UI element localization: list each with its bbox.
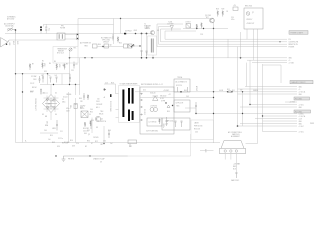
- resistor R41: [159, 119, 161, 125]
- text fan wire labels: [233, 163, 240, 171]
- wire Q1 emitter drop: [103, 126, 105, 144]
- capacitor C37 left cluster: [73, 62, 75, 69]
- capacitor C10 snubber dark: [110, 94, 112, 97]
- wire vertical bus x=257.5 lower: [257, 63, 259, 144]
- svg-text:250V: 250V: [33, 79, 37, 81]
- transformer T1 core bar upper: [128, 88, 130, 104]
- svg-text:C20: C20: [231, 17, 234, 19]
- node select junction: [22, 91, 23, 92]
- text X-cap notes column: [30, 75, 37, 93]
- wire x=68.5 vertical: [68, 92, 70, 143]
- resistor R28: [217, 11, 219, 17]
- svg-text:R29: R29: [222, 9, 225, 11]
- node junction on top rail: [120, 18, 121, 19]
- resistor R53 driver: [90, 121, 92, 127]
- node x242 junctions: [242, 91, 243, 92]
- svg-text:SWITCH: SWITCH: [100, 121, 106, 123]
- svg-text:LTV817: LTV817: [186, 22, 191, 24]
- text secondary specks: [143, 90, 189, 114]
- wire row y=121: [263, 120, 298, 122]
- capacitor C27: [181, 121, 183, 127]
- capacitor C25: [195, 102, 197, 114]
- box PS-ON module B: [104, 44, 109, 48]
- wire standby drops: [142, 34, 147, 58]
- capacitor C41: [108, 131, 110, 139]
- node standby junctions on AC rail: [135, 33, 137, 35]
- capacitor C2: [45, 24, 47, 33]
- node aux junction: [139, 45, 140, 46]
- svg-text:R54 2R2: R54 2R2: [83, 128, 89, 130]
- node -5V junction: [172, 105, 173, 106]
- diode D6 standby rail: [124, 33, 126, 35]
- svg-text:Q7: Q7: [252, 12, 254, 14]
- box aux module: [124, 44, 128, 48]
- node gnd rail dots: [84, 57, 85, 58]
- text R28 R29 labels: [216, 9, 228, 14]
- wire row y=131.5: [263, 131, 298, 133]
- svg-text:R28: R28: [216, 9, 219, 11]
- wire row y=118.5: [255, 118, 297, 120]
- text snubber labels: [50, 135, 70, 144]
- text U3 labels: [245, 6, 254, 26]
- svg-text:R22: R22: [119, 43, 122, 45]
- text -5V module labels: [176, 103, 185, 108]
- regulator U5 TL431 triangle: [170, 26, 174, 31]
- box connector header 3: [294, 97, 310, 100]
- svg-text:R40: R40: [184, 90, 187, 92]
- svg-text:R56 10K: R56 10K: [194, 129, 200, 131]
- box thermistor group: [53, 47, 78, 64]
- ground symbol primary: [62, 156, 66, 161]
- svg-text:R36: R36: [87, 141, 90, 143]
- svg-text:D10: D10: [143, 90, 146, 92]
- text Q5 cluster: [205, 15, 211, 19]
- svg-text:P3 CONN: P3 CONN: [295, 98, 302, 100]
- svg-text:R44: R44: [98, 44, 101, 46]
- svg-text:2SC4242: 2SC4242: [96, 104, 102, 106]
- text T1 top pin labels: [105, 83, 114, 85]
- svg-text:+5 VDC: +5 VDC: [299, 131, 305, 133]
- svg-text:470u: 470u: [66, 108, 70, 110]
- text low voltage labels: [165, 120, 174, 126]
- wire vertical x=113.5: [113, 19, 115, 45]
- wire -12V module internals: [178, 87, 188, 92]
- resistor R35: [84, 122, 86, 127]
- text PS-ON part refs: [98, 44, 112, 47]
- svg-text:C44: C44: [90, 109, 93, 111]
- wire vertical left x=22.5: [22, 74, 24, 143]
- wire y=97.5 rail: [140, 97, 214, 99]
- node module junction dark: [180, 91, 182, 93]
- svg-text:2.2K: 2.2K: [200, 34, 203, 36]
- svg-text:R52: R52: [90, 112, 93, 114]
- text PG box rows: [194, 123, 203, 134]
- svg-text:R7: R7: [32, 64, 34, 66]
- svg-text:R4: R4: [54, 61, 56, 63]
- wire vertical bus x=237.5: [237, 47, 239, 126]
- text bottom center cluster: [62, 143, 104, 161]
- capacitor C38: [83, 93, 85, 100]
- svg-text:REG 7805: REG 7805: [245, 6, 252, 8]
- capacitor C9: [56, 120, 58, 131]
- capacitor C31: [90, 121, 92, 130]
- svg-text:+12V: +12V: [299, 118, 303, 120]
- svg-text:C45 10n: C45 10n: [83, 131, 89, 133]
- svg-text:4148: 4148: [134, 30, 138, 32]
- svg-text:D8: D8: [96, 127, 98, 129]
- capacitor C39 select: [39, 76, 41, 83]
- wire y=133 stub: [40, 132, 58, 134]
- capacitor C30 fan: [235, 173, 237, 179]
- text thermistor label: [57, 49, 68, 55]
- wire long +5V rail y=91.8: [135, 91, 297, 93]
- wire bottom rail right segment: [246, 143, 258, 145]
- thermistor RT1: [69, 48, 72, 51]
- box PS-ON module A: [93, 44, 98, 48]
- wire x=75.5 vertical lower: [75, 98, 77, 143]
- svg-text:200V: 200V: [66, 111, 70, 113]
- node rail84 junctions: [53, 84, 54, 85]
- svg-text:C40: C40: [44, 130, 47, 132]
- varistor VR1: [40, 89, 42, 95]
- svg-text:TL431: TL431: [168, 22, 172, 24]
- text bridge values: [42, 93, 57, 117]
- wire vertical bus x=262.5: [262, 64, 264, 132]
- node doubler junctions: [22, 73, 23, 74]
- svg-text:1R2: 1R2: [100, 144, 103, 146]
- wire row y=116: [263, 115, 298, 117]
- wire J2 pin leads: [225, 154, 236, 170]
- wire U3 drops: [247, 29, 258, 63]
- optocoupler U4: [128, 44, 132, 48]
- wire vertical bus x=213.5 long: [213, 29, 215, 144]
- wire driver drop x=92: [91, 118, 93, 134]
- svg-text:22K: 22K: [80, 101, 83, 103]
- capacitor C16 secondary: [141, 51, 143, 57]
- text plug pin labels: [8, 41, 18, 45]
- transformer T1 primary winding bar: [122, 90, 124, 118]
- text TL431 label: [167, 22, 174, 26]
- text upper cluster micro labels: [42, 61, 74, 74]
- capacitor C17: [146, 51, 148, 56]
- text emitter labels: [95, 141, 103, 146]
- svg-text:R6: R6: [49, 63, 51, 65]
- svg-text:D11 D12: D11 D12: [143, 109, 145, 115]
- text Q1 label: [100, 119, 106, 124]
- box section outline faint: [63, 134, 191, 156]
- inductor L1 common mode choke: [57, 33, 78, 40]
- wire top loop y=24.3: [44, 24, 114, 26]
- wire feedback row3 with corner: [159, 27, 288, 45]
- svg-text:R46: R46: [79, 98, 82, 100]
- wire x=75.5 drop: [75, 85, 77, 96]
- text primary text row y150: [87, 141, 113, 146]
- resistor R2 bleeder: [42, 63, 44, 69]
- text D6 label: [125, 30, 137, 33]
- node rail73 junction left: [15, 73, 16, 74]
- svg-text:+5 VSB: +5 VSB: [289, 63, 294, 65]
- svg-text:C46: C46: [195, 132, 198, 134]
- wire select drop x=62: [61, 74, 63, 85]
- wire doubler rail y=73.8: [16, 73, 71, 75]
- capacitor C4: [42, 74, 44, 83]
- wire vertical x=228: [227, 39, 229, 58]
- svg-text:D35: D35: [44, 71, 47, 73]
- svg-text:2SC945: 2SC945: [93, 137, 99, 139]
- box connector header 2: [290, 80, 313, 84]
- svg-text:NEUT: NEUT: [12, 41, 14, 45]
- svg-text:OUT FILTER SEC: OUT FILTER SEC: [146, 131, 159, 133]
- svg-text:D9: D9: [157, 30, 159, 32]
- text bridge inner specks: [46, 100, 55, 110]
- svg-text:POWER: POWER: [289, 46, 296, 48]
- wire fan stub y=150.5: [200, 150, 214, 152]
- svg-text:L TOROID: L TOROID: [150, 106, 158, 108]
- text bridge bottom refs: [44, 130, 60, 148]
- text T2 label: [144, 24, 151, 30]
- box low voltage group: [162, 118, 190, 130]
- svg-text:510: 510: [97, 99, 100, 101]
- svg-text:L2 TOROID: L2 TOROID: [149, 122, 158, 124]
- resistor R29: [222, 11, 224, 17]
- svg-text:D6 FR107: D6 FR107: [125, 31, 132, 33]
- svg-text:+12 VDC: +12 VDC: [289, 102, 296, 104]
- svg-text:-12V: -12V: [165, 124, 168, 126]
- svg-text:R33: R33: [80, 107, 83, 109]
- node C3 top: [77, 34, 78, 35]
- wire top rail y=18.5: [78, 19, 214, 34]
- wire row y=104.5: [250, 104, 297, 106]
- resistor R3: [56, 64, 58, 71]
- svg-text:C2: C2: [76, 64, 78, 66]
- svg-text:+5: +5: [289, 60, 291, 62]
- svg-text:+B: +B: [103, 97, 105, 99]
- svg-text:D3: D3: [42, 114, 44, 116]
- node row ticks: [279, 41, 280, 42]
- node C3 bottom: [77, 38, 78, 39]
- svg-text:C19: C19: [76, 143, 79, 145]
- svg-text:2n2: 2n2: [110, 143, 113, 145]
- svg-text:OFF LOGIC: OFF LOGIC: [102, 40, 111, 42]
- svg-text:+5V SEC: +5V SEC: [163, 90, 170, 92]
- svg-text:+5: +5: [299, 89, 301, 91]
- box L3 sub: [147, 118, 162, 126]
- svg-text:S20C40: S20C40: [150, 93, 156, 95]
- svg-text:3300u: 3300u: [162, 124, 164, 128]
- wire feedback row2 with corner: [161, 29, 288, 42]
- wire ground rail y=57.8: [70, 57, 288, 59]
- node T1 pin circles: [141, 93, 142, 121]
- svg-text:LM339: LM339: [194, 123, 199, 125]
- svg-text:D38: D38: [72, 146, 75, 148]
- diode D14: [167, 105, 170, 108]
- svg-text:1K: 1K: [226, 11, 228, 13]
- node bottom rail junctions: [55, 155, 56, 156]
- text D10 labels: [160, 96, 166, 103]
- wire x=237.5 bottom vertical: [235, 170, 237, 173]
- svg-text:CIRCUIT: CIRCUIT: [103, 42, 109, 44]
- node AC junction: [15, 29, 17, 31]
- node bus junction dots: [237, 125, 239, 127]
- svg-text:EE-33: EE-33: [99, 114, 103, 116]
- transistor Q5: [210, 18, 215, 23]
- text ATX conn column: [195, 86, 198, 91]
- svg-text:D1-D4: D1-D4: [63, 97, 68, 99]
- wire row y=102: [285, 101, 297, 103]
- svg-text:Q5 C945: Q5 C945: [205, 15, 211, 17]
- wire x=79.5 drop: [79, 58, 81, 95]
- svg-text:PF1: PF1: [61, 26, 64, 28]
- svg-text:CONTROL FB: CONTROL FB: [289, 42, 299, 44]
- bridge rectifier BR1 extra diodes: [45, 98, 57, 110]
- text driver lower rows: [83, 128, 89, 135]
- svg-text:D2: D2: [55, 93, 57, 95]
- svg-text:0V: 0V: [100, 162, 102, 164]
- svg-text:P8/P9: P8/P9: [310, 123, 314, 125]
- text left cluster micro labels: [45, 99, 93, 148]
- text dense micro specks row1: [66, 98, 83, 113]
- svg-text:C12 1n: C12 1n: [58, 138, 63, 140]
- wire stub x=120.5 top drop: [120, 19, 122, 34]
- svg-text:330u: 330u: [69, 105, 71, 109]
- transformer T2 standby: [148, 36, 157, 55]
- capacitor C5: [50, 77, 52, 83]
- svg-text:0.1u: 0.1u: [47, 28, 49, 31]
- text +5VSB regulator top labels: [231, 5, 236, 21]
- svg-text:C35: C35: [71, 70, 74, 72]
- svg-text:D1: D1: [43, 93, 45, 95]
- bridge denser wiring: [44, 96, 59, 113]
- resistor R20 startup: [117, 37, 119, 43]
- node thermistor junction: [69, 57, 71, 59]
- svg-text:BR1: BR1: [48, 104, 51, 106]
- wire T2 secondary drop: [152, 55, 154, 58]
- text mid cluster micro labels: [80, 107, 98, 132]
- wire T1 primary top feed: [104, 84, 116, 94]
- wire rows group2: [247, 59, 287, 61]
- svg-text:THERMISTOR: THERMISTOR: [57, 49, 68, 51]
- svg-text:BLK: BLK: [233, 169, 236, 171]
- text row labels group5: [299, 112, 315, 128]
- diode D10 schottky: [153, 96, 159, 101]
- box -12V module: [174, 79, 190, 92]
- transistor Q4 arrow dark: [131, 45, 134, 48]
- svg-text:T2: T2: [144, 24, 146, 26]
- svg-text:C3 X2: C3 X2: [30, 83, 34, 85]
- resistor R45 left cluster: [64, 64, 66, 70]
- text AC power on label: [80, 42, 91, 48]
- svg-text:B2: B2: [85, 146, 87, 148]
- wire rail y=84.5: [40, 84, 80, 86]
- box bottom-center module: [128, 140, 137, 147]
- text ground area labels: [68, 158, 102, 164]
- svg-text:S3 22: S3 22: [30, 91, 34, 93]
- svg-text:R10: R10: [50, 135, 53, 137]
- wire N from EMI filter to bridge: [65, 39, 78, 47]
- wire PS-ON y=46.5: [97, 46, 124, 48]
- node y97 junction: [213, 97, 214, 98]
- svg-text:R5: R5: [66, 64, 68, 66]
- capacitor C22: [166, 117, 168, 126]
- text row labels group2: [289, 58, 294, 65]
- text BR1 labels: [45, 94, 71, 118]
- svg-text:C42: C42: [129, 146, 132, 148]
- resistor R47: [87, 95, 89, 101]
- transformer T1 secondary bar upper: [132, 88, 134, 104]
- wire vertical bus x=242.5: [242, 92, 244, 126]
- transformer T1 main box: [119, 86, 140, 123]
- wire module out y=108: [185, 107, 196, 109]
- svg-text:R27: R27: [206, 17, 209, 19]
- svg-text:R50: R50: [167, 111, 170, 113]
- svg-text:C11: C11: [60, 131, 63, 133]
- svg-text:+5 VDC: +5 VDC: [299, 104, 305, 106]
- node plug pin dot: [6, 43, 8, 45]
- svg-text:INRUSH: INRUSH: [58, 51, 64, 53]
- wire vertical bus x=240.5: [240, 32, 242, 58]
- transistor Q1 main switch: [95, 116, 100, 121]
- svg-text:D13 C24: D13 C24: [176, 85, 182, 87]
- svg-text:470K: 470K: [58, 64, 60, 68]
- connector J2 pins: [224, 150, 238, 152]
- wire thermistor down: [69, 51, 71, 84]
- node emitter junction: [103, 143, 104, 144]
- svg-text:PRI RTN: PRI RTN: [68, 159, 74, 161]
- text T3 labels: [80, 106, 93, 117]
- svg-text:1n5: 1n5: [48, 139, 51, 141]
- svg-text:+5V: +5V: [233, 5, 236, 7]
- svg-text:C901: C901: [96, 101, 100, 103]
- svg-text:R55: R55: [227, 89, 230, 91]
- svg-text:Q1: Q1: [101, 119, 103, 121]
- svg-text:C43: C43: [186, 96, 189, 98]
- wire aux y=46: [128, 45, 141, 47]
- svg-text:LINE: LINE: [8, 42, 10, 45]
- svg-text:R18: R18: [111, 83, 114, 85]
- text PS-ON circuit block: [101, 37, 111, 44]
- transformer T1 core bar lower: [128, 110, 130, 122]
- svg-text:HS-1: HS-1: [96, 107, 100, 109]
- transformer T3 driver: [81, 111, 88, 118]
- wire row y=107: [240, 106, 297, 108]
- svg-text:PWR GOOD: PWR GOOD: [194, 126, 203, 128]
- svg-text:R15 C13 SNUB: R15 C13 SNUB: [109, 101, 111, 112]
- wire bottom rail y=142.5: [16, 142, 221, 144]
- text top-left corner note: [7, 16, 17, 21]
- svg-text:C5: C5: [62, 99, 64, 101]
- svg-text:REMOTE ON: REMOTE ON: [289, 44, 298, 46]
- svg-text:R30: R30: [146, 27, 149, 29]
- svg-text:R8 1M: R8 1M: [32, 87, 37, 89]
- svg-text:+5VSB OUT: +5VSB OUT: [246, 23, 254, 25]
- svg-text:Q2: Q2: [88, 134, 90, 136]
- wire select drop x=47.5: [47, 74, 49, 85]
- connector P1 AC plug: [1, 38, 10, 48]
- wire row y=94: [238, 93, 298, 95]
- svg-text:Q8: Q8: [110, 45, 112, 47]
- svg-text:SBL1040: SBL1040: [160, 96, 166, 98]
- text fan connector header: [228, 131, 241, 138]
- svg-text:R48: R48: [52, 142, 55, 144]
- svg-text:2n2: 2n2: [55, 75, 58, 77]
- box -5V module: [174, 100, 190, 112]
- svg-text:680u: 680u: [62, 102, 66, 104]
- svg-text:SENSE: SENSE: [253, 90, 258, 92]
- transistor Q3 standby switch: [151, 31, 155, 35]
- text transformer left labels: [99, 111, 103, 116]
- svg-text:470u: 470u: [231, 19, 235, 21]
- svg-text:+5 VDC: +5 VDC: [299, 126, 305, 128]
